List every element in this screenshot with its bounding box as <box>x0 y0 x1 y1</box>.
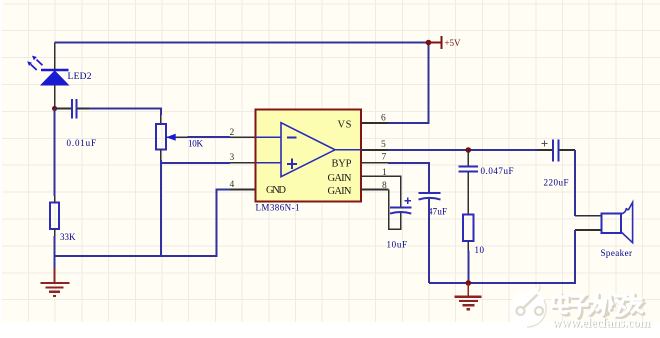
svg-text:0.01uF: 0.01uF <box>67 138 97 148</box>
pin 8 stub <box>361 189 389 191</box>
wire pot top pin <box>160 115 162 124</box>
node junction +5V <box>426 40 432 46</box>
watermark text dian <box>555 296 569 315</box>
wire pin 7 to C 47uF <box>388 163 429 193</box>
watermark text you <box>628 296 644 314</box>
power symbol +5V <box>429 36 442 49</box>
ground symbol left <box>41 268 70 296</box>
svg-text:GAIN: GAIN <box>328 186 352 197</box>
watermark logo disc <box>510 285 547 328</box>
op-amp input line pin 3 <box>255 162 281 164</box>
pin 6 stub <box>361 122 388 124</box>
pin 2 stub <box>230 136 255 138</box>
capacitor C 0.01uF plates <box>72 99 77 119</box>
svg-text:4: 4 <box>230 180 235 190</box>
op-amp plus sign <box>287 159 297 169</box>
svg-text:10: 10 <box>475 245 485 255</box>
wire pin 6 to +5V <box>388 43 429 124</box>
svg-text:Speaker: Speaker <box>601 248 633 258</box>
node junction bottom rail <box>466 280 472 286</box>
LED LED2 <box>27 56 68 85</box>
op-amp minus sign <box>287 136 297 138</box>
svg-text:33K: 33K <box>60 232 76 242</box>
svg-text:10K: 10K <box>188 139 204 149</box>
wire bottom-left gnd rail <box>55 190 230 257</box>
svg-text:LM386N-1: LM386N-1 <box>256 203 300 213</box>
speaker cone <box>621 202 632 242</box>
svg-text:0.047uF: 0.047uF <box>481 166 514 176</box>
svg-text:220uF: 220uF <box>544 178 569 188</box>
op-amp U LM386N-1 body <box>255 110 360 202</box>
wire stem to ground symbol left <box>54 256 56 269</box>
svg-text:BYP: BYP <box>332 159 352 170</box>
svg-text:6: 6 <box>381 114 386 124</box>
resistor R 10 bottom lead <box>467 241 469 250</box>
speaker bottom stub <box>575 229 602 231</box>
svg-text:LED2: LED2 <box>68 72 92 82</box>
svg-text:3: 3 <box>230 153 235 163</box>
resistor R 33K leads <box>54 196 56 236</box>
capacitor C 220uF leads <box>537 149 575 151</box>
potentiometer wiper arrow <box>166 136 187 138</box>
svg-text:47uF: 47uF <box>428 207 447 217</box>
wire from C 0.01uF to pot top <box>90 109 161 116</box>
node junction at C1 tap <box>52 106 57 111</box>
wire C 0.047uF to R 10 <box>467 172 469 215</box>
op-amp output line pin 5 <box>335 149 361 151</box>
pin 1 stub <box>361 175 388 177</box>
pin 4 stub <box>230 189 255 191</box>
wire vertical LED anode lead <box>54 43 56 71</box>
speaker LS body <box>602 214 622 233</box>
resistor R 33K body <box>50 202 59 229</box>
pin 3 stub <box>230 162 255 164</box>
wire R 10 to bottom rail <box>467 251 469 284</box>
svg-text:5: 5 <box>381 140 386 150</box>
watermark text zi <box>572 298 589 318</box>
ground symbol right <box>454 283 481 309</box>
wire wiper to pin 2 <box>188 136 231 138</box>
wire junction down to R 33K <box>54 109 56 197</box>
capacitor C 10uF <box>390 197 411 213</box>
svg-text:2: 2 <box>230 128 235 138</box>
wire C 220uF to speaker top <box>574 150 576 216</box>
op-amp input line pin 2 <box>255 136 281 138</box>
svg-text:www.elecfans.com: www.elecfans.com <box>552 315 650 330</box>
capacitor C 0.01uF leads <box>55 108 90 110</box>
svg-text:GND: GND <box>266 185 286 196</box>
svg-text:1: 1 <box>382 168 387 178</box>
potentiometer RV 10K body <box>156 124 166 149</box>
capacitor C 220uF plus sign <box>542 141 548 147</box>
wire R 33K to gnd rail <box>54 236 56 256</box>
op-amp triangle <box>281 123 335 177</box>
wire LED cathode lead <box>54 85 56 109</box>
wire pin 8 loop to C 10uF bottom <box>389 190 401 230</box>
wire pot bottom down and tee to pin 3 <box>161 160 230 256</box>
svg-text:GAIN: GAIN <box>328 173 352 184</box>
speaker top stub <box>575 215 602 217</box>
resistor R 10 body <box>463 215 473 242</box>
pin 5 stub <box>361 149 388 151</box>
svg-text:8: 8 <box>382 181 387 191</box>
wire C 47uF to bottom rail <box>428 199 430 283</box>
node junction output <box>466 147 472 153</box>
watermark text shao <box>605 298 628 317</box>
capacitor C 220uF plates <box>553 140 558 162</box>
wire pin 1 to C 10uF top <box>388 176 401 207</box>
wire top rail from LED to +5V <box>55 42 429 44</box>
capacitor C 0.047uF lead top <box>467 150 469 166</box>
potentiometer bottom pin <box>160 149 162 160</box>
pin 7 stub <box>361 162 388 164</box>
svg-text:7: 7 <box>382 153 387 163</box>
watermark text fa <box>591 296 608 315</box>
svg-text:+5V: +5V <box>445 38 462 48</box>
svg-text:VS: VS <box>338 120 352 131</box>
capacitor C 47uF <box>419 193 441 199</box>
wire pin 5 output rail <box>388 149 537 151</box>
wire speaker bottom to rail <box>429 230 575 283</box>
svg-text:10uF: 10uF <box>387 240 408 250</box>
capacitor C 0.047uF <box>458 167 478 172</box>
